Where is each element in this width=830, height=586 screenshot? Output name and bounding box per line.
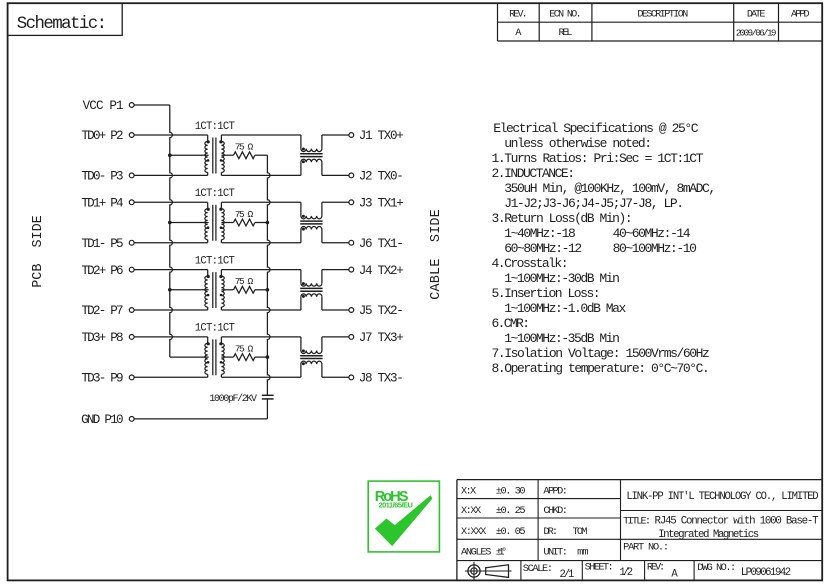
svg-text:SCALE:: SCALE: (523, 563, 553, 575)
svg-text:J1-J2;J3-J6;J4-J5;J7-J8, LP.: J1-J2;J3-J6;J4-J5;J7-J8, LP. (492, 196, 685, 211)
svg-text:CHKD:: CHKD: (543, 505, 568, 517)
svg-text:A: A (671, 568, 678, 580)
svg-text:unless otherwise noted:: unless otherwise noted: (492, 136, 653, 151)
svg-text:2.INDUCTANCE:: 2.INDUCTANCE: (492, 166, 576, 181)
svg-text:TD1+ P4: TD1+ P4 (81, 197, 123, 211)
svg-text:1~100MHz:-1.0dB Max: 1~100MHz:-1.0dB Max (492, 301, 627, 316)
svg-text:Schematic:: Schematic: (17, 15, 107, 34)
svg-text:J8 TX3-: J8 TX3- (359, 372, 404, 386)
svg-text:±0. 05: ±0. 05 (496, 526, 526, 538)
svg-text:TD1- P5: TD1- P5 (81, 237, 123, 251)
svg-text:J3 TX1+: J3 TX1+ (359, 197, 404, 211)
svg-text:1~40MHz:-18 40~60MHz:-14: 1~40MHz:-18 40~60MHz:-14 (492, 226, 691, 241)
svg-text:J1 TX0+: J1 TX0+ (359, 129, 404, 143)
svg-text:TD3+ P8: TD3+ P8 (81, 331, 123, 345)
svg-text:REV:: REV: (647, 562, 665, 574)
svg-text:LINK-PP INT'L TECHNOLOGY CO.,: LINK-PP INT'L TECHNOLOGY CO., LIMITED (626, 491, 818, 503)
svg-text:2/1: 2/1 (560, 569, 575, 581)
svg-text:75 Ω: 75 Ω (235, 142, 254, 153)
svg-text:1CT:1CT: 1CT:1CT (195, 255, 235, 267)
svg-text:4.Crosstalk:: 4.Crosstalk: (492, 256, 569, 271)
svg-text:DR:: DR: (543, 526, 558, 538)
svg-text:ECN NO.: ECN NO. (549, 10, 581, 21)
svg-text:75 Ω: 75 Ω (235, 276, 254, 287)
svg-text:PART NO.:: PART NO.: (623, 541, 669, 553)
svg-text:2009/06/19: 2009/06/19 (736, 28, 777, 39)
svg-text:DWG NO.:: DWG NO.: (697, 562, 736, 574)
svg-text:Integrated Magnetics: Integrated Magnetics (658, 529, 759, 541)
svg-text:APPD:: APPD: (543, 485, 568, 497)
svg-text:±1°: ±1° (496, 546, 507, 558)
svg-text:RJ45 Connector with 1000 Base-: RJ45 Connector with 1000 Base-T (655, 516, 820, 528)
svg-text:TD2- P7: TD2- P7 (81, 304, 123, 318)
svg-text:VCC P1: VCC P1 (83, 99, 124, 113)
svg-text:1CT:1CT: 1CT:1CT (195, 188, 235, 200)
svg-text:TITLE:: TITLE: (623, 516, 651, 528)
svg-text:CABLE SIDE: CABLE SIDE (429, 209, 444, 300)
svg-text:1000pF/2KV: 1000pF/2KV (209, 393, 257, 405)
svg-text:75 Ω: 75 Ω (235, 209, 254, 220)
svg-text:1~100MHz:-30dB Min: 1~100MHz:-30dB Min (492, 271, 620, 286)
svg-text:8.Operating temperature: 0°C~7: 8.Operating temperature: 0°C~70°C. (492, 361, 710, 376)
svg-text:±0. 25: ±0. 25 (496, 505, 526, 517)
svg-text:GND P10: GND P10 (81, 413, 124, 427)
svg-text:ANGLES: ANGLES (461, 546, 491, 558)
svg-text:DESCRIPTION: DESCRIPTION (637, 10, 688, 21)
svg-text:TOM: TOM (573, 526, 588, 538)
svg-text:1CT:1CT: 1CT:1CT (195, 323, 235, 335)
svg-text:TD2+ P6: TD2+ P6 (81, 264, 123, 278)
svg-text:REV.: REV. (509, 10, 528, 21)
svg-text:5.Insertion Loss:: 5.Insertion Loss: (492, 286, 601, 301)
svg-text:APPD: APPD (791, 10, 810, 21)
svg-text:TD0- P3: TD0- P3 (81, 170, 123, 184)
svg-text:7.Isolation Voltage: 1500Vrms/: 7.Isolation Voltage: 1500Vrms/60Hz (492, 346, 710, 361)
svg-text:1/2: 1/2 (619, 567, 633, 579)
svg-text:75 Ω: 75 Ω (235, 344, 254, 355)
svg-text:mm: mm (577, 546, 588, 558)
svg-text:J6 TX1-: J6 TX1- (359, 237, 404, 251)
svg-text:60~80MHz:-12 80~100MHz:-10: 60~80MHz:-12 80~100MHz:-10 (492, 241, 697, 256)
svg-text:LP09061942: LP09061942 (741, 567, 791, 579)
svg-text:1.Turns Ratios: Pri:Sec = 1CT:: 1.Turns Ratios: Pri:Sec = 1CT:1CT (492, 151, 704, 166)
svg-text:X:XX: X:XX (461, 505, 481, 517)
svg-text:SHEET:: SHEET: (585, 562, 614, 574)
svg-text:3.Return Loss(dB Min):: 3.Return Loss(dB Min): (492, 211, 633, 226)
svg-text:1~100MHz:-35dB Min: 1~100MHz:-35dB Min (492, 331, 620, 346)
svg-text:±0. 30: ±0. 30 (496, 485, 526, 497)
svg-text:X:XXX: X:XXX (461, 526, 486, 538)
svg-text:X:X: X:X (461, 485, 476, 497)
svg-text:2011/65/EU: 2011/65/EU (379, 501, 413, 510)
svg-text:6.CMR:: 6.CMR: (492, 316, 531, 331)
svg-text:PCB SIDE: PCB SIDE (31, 215, 46, 288)
svg-text:A: A (515, 28, 521, 39)
svg-text:J4 TX2+: J4 TX2+ (359, 264, 404, 278)
svg-text:REL: REL (559, 28, 573, 39)
svg-text:1CT:1CT: 1CT:1CT (195, 121, 235, 133)
svg-text:350uH Min, @100KHz, 100mV, 8mA: 350uH Min, @100KHz, 100mV, 8mADC, (492, 181, 717, 196)
svg-text:Electrical Specifications @ 25: Electrical Specifications @ 25°C (493, 121, 699, 136)
svg-text:TD3- P9: TD3- P9 (81, 372, 123, 386)
svg-text:DATE: DATE (747, 10, 766, 21)
svg-text:J5 TX2-: J5 TX2- (359, 304, 404, 318)
svg-text:J2 TX0-: J2 TX0- (359, 170, 404, 184)
svg-text:UNIT:: UNIT: (543, 546, 568, 558)
svg-text:J7 TX3+: J7 TX3+ (359, 331, 404, 345)
svg-text:TD0+ P2: TD0+ P2 (81, 129, 123, 143)
